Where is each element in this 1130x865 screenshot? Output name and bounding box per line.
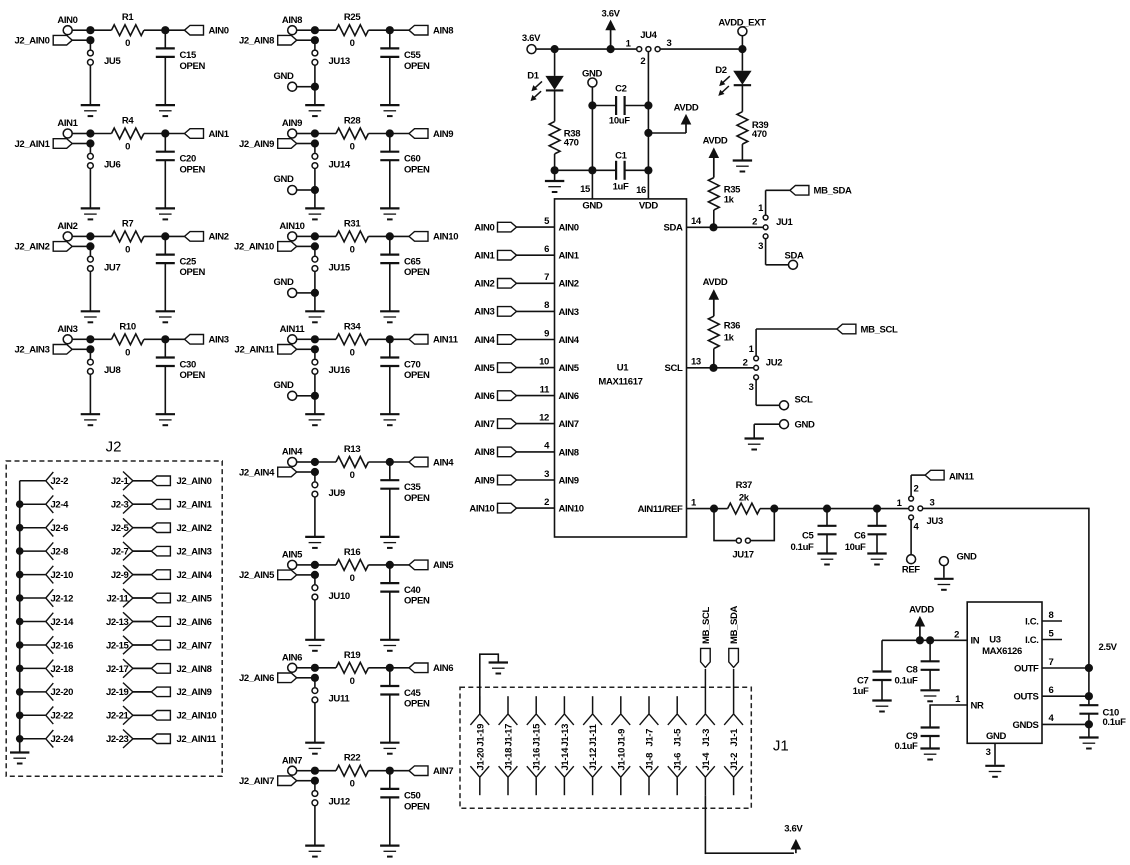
wire xyxy=(90,29,111,31)
wire xyxy=(554,49,556,76)
svg-text:JU14: JU14 xyxy=(329,159,351,170)
svg-text:GND: GND xyxy=(273,71,294,82)
svg-text:J2-14: J2-14 xyxy=(51,617,75,628)
ground xyxy=(305,537,324,548)
capacitor C55 OPEN xyxy=(380,30,430,105)
pin name SDA xyxy=(663,223,682,234)
pin J2-17 xyxy=(106,659,151,678)
svg-text:J1-4: J1-4 xyxy=(701,752,712,771)
pin name AIN6 xyxy=(559,391,579,402)
svg-text:R37: R37 xyxy=(736,480,752,491)
ground xyxy=(733,161,752,172)
svg-text:AIN10: AIN10 xyxy=(559,504,584,515)
svg-text:3.6V: 3.6V xyxy=(784,823,803,834)
svg-text:GND: GND xyxy=(273,380,294,391)
wire xyxy=(660,48,742,50)
svg-text:AIN0: AIN0 xyxy=(559,223,579,234)
pin name AIN2 xyxy=(559,279,579,290)
connector tag AIN8 xyxy=(409,25,453,36)
svg-text:2k: 2k xyxy=(739,492,750,503)
connector tag J2_AIN3 xyxy=(14,345,88,356)
svg-text:JU8: JU8 xyxy=(104,365,120,376)
junction xyxy=(386,458,394,466)
svg-text:J1-6: J1-6 xyxy=(673,753,684,771)
wire xyxy=(89,375,91,415)
wire xyxy=(314,375,316,396)
svg-text:AIN7: AIN7 xyxy=(474,419,494,430)
pin J1-5 xyxy=(668,696,687,746)
svg-text:AIN2: AIN2 xyxy=(57,221,77,232)
ground xyxy=(305,640,324,651)
wire xyxy=(297,667,313,669)
svg-text:J2-12: J2-12 xyxy=(51,593,74,604)
junction xyxy=(386,232,394,240)
svg-text:VDD: VDD xyxy=(639,201,658,212)
svg-text:0: 0 xyxy=(350,779,355,790)
terminal AIN2 xyxy=(57,221,77,241)
jumper JU4 xyxy=(626,30,672,67)
svg-text:AIN1: AIN1 xyxy=(57,118,78,129)
svg-text:R31: R31 xyxy=(344,218,361,229)
wire xyxy=(297,770,313,772)
pin J2-22 xyxy=(20,707,73,725)
svg-text:MAX6126: MAX6126 xyxy=(982,646,1022,657)
power AVDD arrow xyxy=(703,135,728,177)
svg-text:C30: C30 xyxy=(180,359,196,370)
pin J2-3 xyxy=(111,495,152,514)
svg-text:7: 7 xyxy=(1049,657,1054,668)
svg-text:C8: C8 xyxy=(906,665,918,676)
junction xyxy=(386,767,394,775)
wire xyxy=(756,380,779,406)
wire (U1 pin 8) xyxy=(517,310,555,312)
pin J2-6 xyxy=(20,519,68,537)
svg-text:JU5: JU5 xyxy=(104,56,121,67)
resistor R25 xyxy=(336,12,368,49)
svg-text:AIN6: AIN6 xyxy=(474,391,494,402)
connector tag AIN7 xyxy=(409,766,453,777)
svg-text:10uF: 10uF xyxy=(609,116,630,127)
wire xyxy=(72,29,88,31)
ground xyxy=(156,208,175,219)
terminal GND xyxy=(582,69,603,87)
svg-text:GND: GND xyxy=(795,420,816,431)
svg-text:0.1uF: 0.1uF xyxy=(1103,717,1127,728)
wire xyxy=(297,338,313,340)
svg-text:J2-11: J2-11 xyxy=(106,593,129,604)
capacitor C10 0.1uF xyxy=(1079,705,1126,736)
ground xyxy=(305,414,324,425)
svg-text:3: 3 xyxy=(930,497,935,508)
connector tag AIN6 xyxy=(409,663,453,674)
pin J1-12 xyxy=(583,748,602,795)
wire xyxy=(741,49,743,71)
wire xyxy=(314,703,316,743)
ground xyxy=(489,663,508,674)
svg-text:C35: C35 xyxy=(404,482,421,493)
junction xyxy=(311,83,319,91)
svg-text:AIN11/REF: AIN11/REF xyxy=(638,504,683,515)
wire (U3 pin 5) xyxy=(1042,639,1062,641)
jumper JU6 xyxy=(88,144,121,171)
svg-text:J2_AIN6: J2_AIN6 xyxy=(239,673,274,684)
svg-text:2: 2 xyxy=(544,497,549,508)
terminal 3.6V xyxy=(522,33,541,54)
svg-text:SDA: SDA xyxy=(784,250,803,261)
pin J2-23 xyxy=(106,730,151,749)
svg-text:AIN7: AIN7 xyxy=(559,419,579,430)
jumper JU11 xyxy=(312,678,350,705)
svg-text:JU7: JU7 xyxy=(104,262,120,273)
pin J2-13 xyxy=(106,612,151,631)
ground xyxy=(380,414,399,425)
svg-text:J2-15: J2-15 xyxy=(106,640,130,651)
power AVDD arrow xyxy=(674,103,699,133)
svg-text:0.1uF: 0.1uF xyxy=(894,741,918,752)
pin J1-6 xyxy=(668,753,687,795)
svg-text:3: 3 xyxy=(986,747,991,758)
svg-text:0: 0 xyxy=(350,347,355,358)
pin name AIN11/REF xyxy=(638,504,683,515)
svg-text:7: 7 xyxy=(544,272,549,283)
wire xyxy=(314,169,316,190)
pin J2-21 xyxy=(106,706,151,725)
ground xyxy=(156,105,175,116)
junction xyxy=(16,594,24,602)
pin name AIN5 xyxy=(559,363,580,374)
wire xyxy=(480,654,499,714)
svg-text:J2_AIN3: J2_AIN3 xyxy=(177,547,212,558)
wire (REF to OUTF) xyxy=(923,508,1089,668)
connector tag J2_AIN7 xyxy=(151,640,211,651)
svg-text:AVDD: AVDD xyxy=(703,277,728,288)
pin name VDD (U1 pin 16) xyxy=(636,185,658,212)
capacitor C50 OPEN xyxy=(380,771,430,846)
svg-text:6: 6 xyxy=(1049,685,1054,696)
capacitor C35 OPEN xyxy=(380,462,430,537)
svg-text:R36: R36 xyxy=(724,321,740,332)
junction xyxy=(386,664,394,672)
junction xyxy=(161,129,169,137)
pin number 1 xyxy=(955,694,961,705)
ground xyxy=(380,640,399,651)
svg-text:OPEN: OPEN xyxy=(180,61,206,72)
jumper JU3 xyxy=(897,483,943,532)
svg-text:GND: GND xyxy=(986,731,1007,742)
wire (U1 pin 12) xyxy=(517,423,555,425)
pin name OUTF xyxy=(1014,663,1039,674)
svg-text:R34: R34 xyxy=(344,321,361,332)
terminal GND xyxy=(273,71,312,91)
junction xyxy=(311,561,319,579)
wire xyxy=(910,520,912,554)
pin J1-1 xyxy=(724,669,743,747)
svg-text:R10: R10 xyxy=(119,321,135,332)
jumper JU12 xyxy=(312,781,350,808)
wire xyxy=(144,29,185,31)
svg-text:AIN9: AIN9 xyxy=(559,475,579,486)
svg-text:C40: C40 xyxy=(404,585,420,596)
junction xyxy=(311,232,319,250)
wire xyxy=(368,564,409,566)
svg-text:0: 0 xyxy=(125,244,130,255)
wire xyxy=(705,795,794,853)
svg-text:J1-2: J1-2 xyxy=(729,753,740,771)
svg-text:J1-18: J1-18 xyxy=(504,748,515,771)
junction xyxy=(386,26,394,34)
wire xyxy=(314,497,316,537)
wire xyxy=(368,461,409,463)
junction xyxy=(311,335,319,353)
svg-text:J2-20: J2-20 xyxy=(51,687,74,698)
svg-text:11: 11 xyxy=(540,384,550,395)
pin name AIN7 xyxy=(559,419,579,430)
connector tag AIN10 xyxy=(409,232,458,243)
wire xyxy=(144,338,185,340)
terminal AIN9 xyxy=(282,118,302,138)
pin J2-16 xyxy=(20,636,73,654)
connector tag J2_AIN1 xyxy=(151,499,212,510)
junction xyxy=(386,335,394,343)
wire xyxy=(911,475,925,496)
svg-text:AIN11: AIN11 xyxy=(433,335,459,346)
svg-text:C20: C20 xyxy=(180,154,196,165)
jumper JU15 xyxy=(312,246,351,273)
wire xyxy=(314,293,316,311)
wire xyxy=(72,235,88,237)
svg-text:1uF: 1uF xyxy=(853,686,869,697)
wire xyxy=(314,806,316,846)
svg-text:AVDD: AVDD xyxy=(703,135,728,146)
pin J1-15 xyxy=(527,696,546,746)
wire (REF net) xyxy=(774,508,908,510)
junction xyxy=(161,232,169,240)
svg-text:0.1uF: 0.1uF xyxy=(894,675,918,686)
svg-text:C2: C2 xyxy=(615,84,627,95)
svg-text:J2-18: J2-18 xyxy=(51,664,74,675)
svg-text:AIN3: AIN3 xyxy=(209,335,229,346)
wire (SCL net) xyxy=(687,367,754,369)
svg-text:3.6V: 3.6V xyxy=(522,33,541,44)
svg-text:J2_AIN3: J2_AIN3 xyxy=(14,345,49,356)
svg-text:AIN3: AIN3 xyxy=(559,307,579,318)
terminal SCL xyxy=(780,395,813,410)
resistor R7 xyxy=(112,218,144,255)
pin number 7 xyxy=(1049,657,1054,668)
svg-text:SDA: SDA xyxy=(663,223,682,234)
resistor R35 1k xyxy=(708,178,741,210)
pin J2-8 xyxy=(20,542,68,560)
svg-text:3: 3 xyxy=(544,469,549,480)
wire xyxy=(315,564,336,566)
svg-text:0: 0 xyxy=(350,142,355,153)
svg-text:U3: U3 xyxy=(989,635,1001,646)
svg-text:J2-5: J2-5 xyxy=(111,523,130,534)
connector tag AIN5 (U1 input) xyxy=(474,363,516,374)
svg-text:15: 15 xyxy=(580,184,591,195)
connector tag J2_AIN8 xyxy=(151,664,211,675)
svg-text:0: 0 xyxy=(125,347,130,358)
connector tag J2_AIN4 xyxy=(151,570,212,581)
wire xyxy=(368,235,409,237)
capacitor C5 0.1uF xyxy=(790,509,836,553)
junction xyxy=(644,101,652,174)
wire (U3 pin 8) xyxy=(1042,620,1062,622)
svg-text:3: 3 xyxy=(749,382,754,393)
pin J1-18 xyxy=(499,748,518,795)
junction xyxy=(386,129,394,137)
pin number 2 xyxy=(954,630,959,641)
connector tag J2_AIN7 xyxy=(239,776,313,787)
svg-text:MB_SDA: MB_SDA xyxy=(729,605,740,644)
svg-text:R13: R13 xyxy=(344,444,360,455)
pin number 14 xyxy=(691,216,702,227)
svg-text:AIN3: AIN3 xyxy=(57,324,77,335)
svg-text:AIN2: AIN2 xyxy=(559,279,579,290)
pin name NR xyxy=(971,700,985,711)
junction xyxy=(86,335,94,353)
svg-text:J2-19: J2-19 xyxy=(106,687,129,698)
svg-text:AIN8: AIN8 xyxy=(559,447,579,458)
svg-text:OPEN: OPEN xyxy=(404,699,430,710)
connector tag AIN9 xyxy=(409,129,453,140)
svg-text:OPEN: OPEN xyxy=(404,493,430,504)
svg-text:OPEN: OPEN xyxy=(180,164,206,175)
junction xyxy=(16,524,24,532)
power 3.6V arrow xyxy=(784,823,803,853)
svg-text:1k: 1k xyxy=(724,194,735,205)
svg-text:J1-13: J1-13 xyxy=(560,724,571,747)
pin number 1 xyxy=(691,497,697,508)
svg-text:1uF: 1uF xyxy=(613,182,629,193)
ground xyxy=(380,311,399,322)
wire (U1 pin 9) xyxy=(517,339,555,341)
capacitor C6 10uF xyxy=(845,509,887,553)
svg-text:AIN5: AIN5 xyxy=(282,550,303,561)
wire xyxy=(315,235,336,237)
pin J1-3 xyxy=(696,669,715,747)
wire (U3 pin 4) xyxy=(1042,723,1089,725)
wire xyxy=(368,29,409,31)
pin name I.C. xyxy=(1025,635,1038,646)
wire xyxy=(754,424,779,437)
wire (U1 pin 10) xyxy=(517,367,555,369)
junction xyxy=(1085,664,1093,729)
terminal AIN1 xyxy=(57,118,78,138)
wire (GND rail to U1 pin 15) xyxy=(591,87,593,199)
svg-text:0: 0 xyxy=(125,38,130,49)
wire xyxy=(714,508,728,510)
svg-text:C55: C55 xyxy=(404,50,421,61)
connector tag AIN1 (U1 input) xyxy=(474,250,516,261)
svg-text:J2_AIN10: J2_AIN10 xyxy=(234,242,274,253)
junction xyxy=(311,289,319,297)
resistor R37 2k xyxy=(728,480,760,514)
junction xyxy=(16,641,24,649)
svg-text:AIN0: AIN0 xyxy=(474,222,494,233)
terminal AIN0 xyxy=(57,15,77,35)
wire xyxy=(368,133,409,135)
wire xyxy=(713,210,715,227)
wire xyxy=(1088,668,1090,705)
wire xyxy=(766,239,789,265)
ground xyxy=(156,311,175,322)
svg-text:0: 0 xyxy=(350,244,355,255)
connector tag J2_AIN2 xyxy=(151,523,211,534)
connector tag J2_AIN1 xyxy=(14,139,88,150)
svg-text:AVDD_EXT: AVDD_EXT xyxy=(718,17,766,28)
svg-text:J1-5: J1-5 xyxy=(673,728,684,747)
svg-text:AIN4: AIN4 xyxy=(282,447,303,458)
connector tag J2_AIN10 xyxy=(151,711,216,722)
junction xyxy=(161,335,169,343)
svg-text:OPEN: OPEN xyxy=(180,370,206,381)
wire xyxy=(368,338,409,340)
resistor R19 xyxy=(336,650,368,687)
ground xyxy=(1079,738,1098,749)
resistor R34 xyxy=(336,321,368,358)
terminal REF xyxy=(902,555,920,576)
wire (U1 pin 4) xyxy=(517,451,555,453)
junction xyxy=(311,767,319,785)
wire (U1 pin 7) xyxy=(517,282,555,284)
svg-text:U1: U1 xyxy=(617,362,630,373)
svg-text:0: 0 xyxy=(350,470,355,481)
svg-text:J2-3: J2-3 xyxy=(111,500,129,511)
terminal SDA xyxy=(784,250,803,269)
svg-text:MB_SDA: MB_SDA xyxy=(814,186,853,197)
svg-text:8: 8 xyxy=(544,300,549,311)
svg-text:REF: REF xyxy=(902,564,920,575)
svg-text:C65: C65 xyxy=(404,256,421,267)
connector tag AIN6 (U1 input) xyxy=(474,391,516,402)
terminal GND xyxy=(939,551,977,565)
pin name AIN8 xyxy=(559,447,579,458)
connector tag J2_AIN6 xyxy=(239,673,313,684)
svg-text:GND: GND xyxy=(273,174,294,185)
capacitor C65 OPEN xyxy=(380,236,430,311)
connector tag J2_AIN6 xyxy=(151,617,211,628)
svg-text:J2-10: J2-10 xyxy=(51,570,74,581)
svg-text:J2_AIN9: J2_AIN9 xyxy=(177,687,212,698)
junction xyxy=(709,364,717,372)
svg-text:3.6V: 3.6V xyxy=(602,8,621,19)
junction xyxy=(916,636,934,644)
capacitor C1 1uF xyxy=(592,150,648,192)
svg-text:AIN11: AIN11 xyxy=(949,471,975,482)
jumper JU7 xyxy=(88,246,121,273)
resistor R38 xyxy=(549,122,580,154)
pin name AIN1 xyxy=(559,251,580,262)
svg-text:J2-8: J2-8 xyxy=(51,547,69,558)
svg-text:J2_AIN11: J2_AIN11 xyxy=(177,734,218,745)
wire xyxy=(314,65,316,86)
svg-text:C25: C25 xyxy=(180,256,197,267)
jumper JU10 xyxy=(312,575,350,602)
pin J1-14 xyxy=(555,747,574,795)
svg-text:J2_AIN8: J2_AIN8 xyxy=(239,36,274,47)
connector tag AIN4 (U1 input) xyxy=(474,335,516,346)
svg-text:12: 12 xyxy=(539,412,549,423)
wire xyxy=(90,338,111,340)
svg-text:AIN7: AIN7 xyxy=(282,755,302,766)
svg-text:AIN2: AIN2 xyxy=(474,279,494,290)
ground xyxy=(305,105,324,116)
svg-text:AIN3: AIN3 xyxy=(474,307,494,318)
svg-text:J2_AIN10: J2_AIN10 xyxy=(177,711,217,722)
svg-text:AIN6: AIN6 xyxy=(282,653,302,664)
svg-text:J2_AIN0: J2_AIN0 xyxy=(177,476,212,487)
